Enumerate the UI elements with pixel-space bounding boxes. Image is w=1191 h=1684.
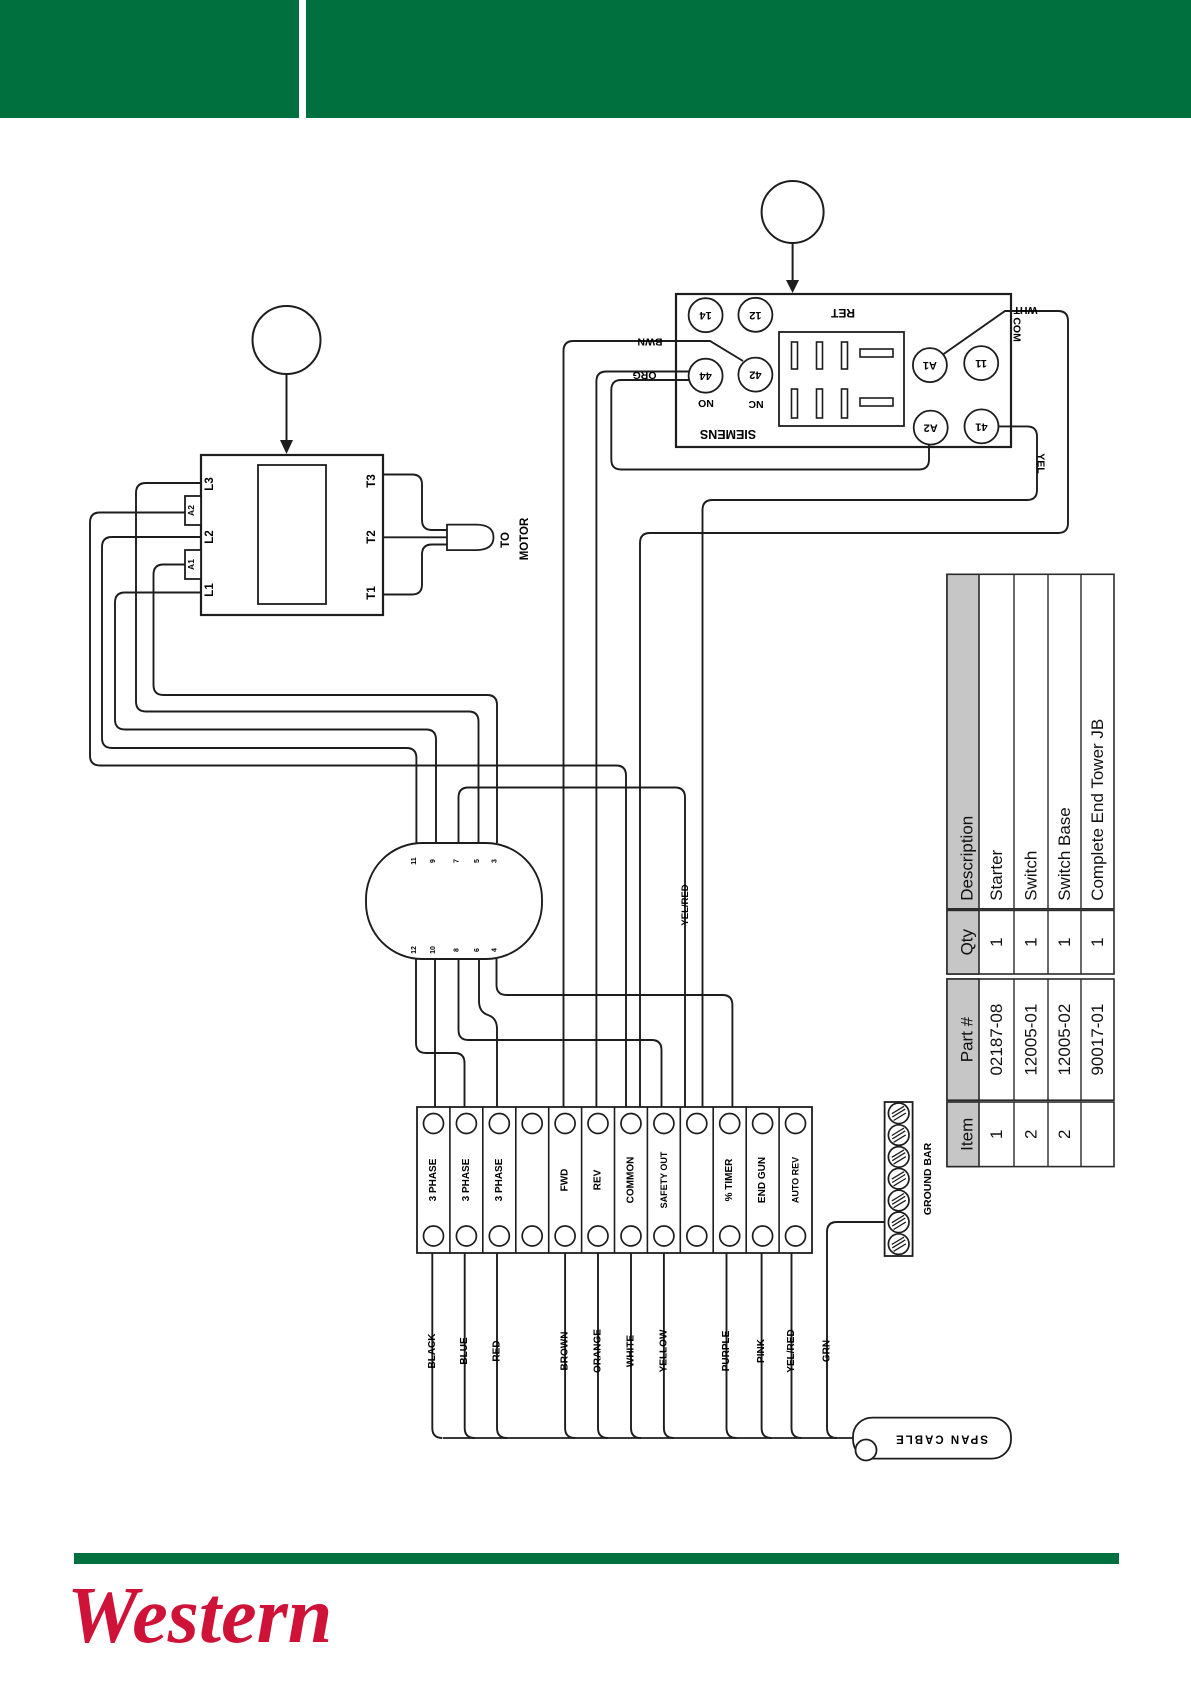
socket slot horizontal bbox=[860, 398, 893, 406]
ground bar screw bbox=[888, 1147, 909, 1168]
socket slot bbox=[792, 342, 798, 369]
svg-text:RET: RET bbox=[830, 306, 855, 320]
terminal 12 AUTO REV bbox=[786, 1114, 806, 1134]
wire BLACK to span cable bbox=[432, 1253, 442, 1438]
span cable bus wire bbox=[443, 1437, 856, 1439]
svg-text:5: 5 bbox=[474, 859, 481, 863]
wire GRN ground bar to span cable bbox=[827, 1222, 885, 1438]
ground bar screw bbox=[888, 1234, 909, 1255]
terminal 7 COMMON bbox=[621, 1114, 641, 1134]
svg-text:A2: A2 bbox=[186, 505, 196, 516]
svg-text:NC: NC bbox=[748, 398, 764, 410]
svg-text:A1: A1 bbox=[186, 559, 196, 570]
svg-text:11: 11 bbox=[975, 357, 987, 369]
starter aux contact A2 bbox=[185, 496, 201, 525]
wire T1 to motor lug bbox=[383, 545, 448, 595]
wire BLUE to span cable bbox=[465, 1253, 475, 1438]
svg-text:L2: L2 bbox=[204, 530, 216, 543]
ground bar screw bbox=[888, 1168, 909, 1189]
svg-text:12005-01: 12005-01 bbox=[1022, 1004, 1041, 1076]
svg-text:2: 2 bbox=[1055, 1130, 1074, 1139]
svg-text:L1: L1 bbox=[204, 583, 216, 597]
svg-text:A2: A2 bbox=[924, 422, 938, 434]
svg-text:1: 1 bbox=[1022, 937, 1041, 946]
relay pin 14 bbox=[689, 298, 723, 332]
svg-text:WHITE: WHITE bbox=[626, 1335, 637, 1368]
wire ORG relay 44 to REV terminal bbox=[596, 372, 689, 1109]
terminal 3 3 PHASE bbox=[489, 1114, 509, 1134]
svg-text:6: 6 bbox=[474, 948, 481, 952]
wire connector to 3 PHASE 3 bbox=[479, 959, 497, 1108]
terminal 1 3 PHASE bbox=[424, 1114, 444, 1134]
svg-text:1: 1 bbox=[987, 937, 1006, 946]
wire starter A1 to connector pin bbox=[154, 565, 498, 844]
table section Part # bbox=[947, 979, 1114, 1100]
svg-text:SIEMENS: SIEMENS bbox=[700, 427, 756, 441]
svg-text:END GUN: END GUN bbox=[757, 1157, 768, 1203]
footer rule bbox=[74, 1553, 1119, 1564]
table section Qty bbox=[947, 910, 1114, 974]
svg-text:WHT: WHT bbox=[1013, 304, 1037, 316]
svg-text:3 PHASE: 3 PHASE bbox=[428, 1158, 439, 1201]
svg-text:Item: Item bbox=[958, 1118, 977, 1151]
relay pin 41 bbox=[965, 409, 999, 443]
relay pin 11 bbox=[964, 346, 998, 380]
svg-text:4: 4 bbox=[492, 948, 499, 952]
wire BROWN to span cable bbox=[565, 1253, 575, 1438]
svg-text:11: 11 bbox=[411, 857, 418, 865]
callout balloon (starter) bbox=[253, 306, 321, 454]
svg-text:ORG: ORG bbox=[633, 369, 657, 381]
svg-text:42: 42 bbox=[749, 369, 761, 381]
terminal strip bbox=[417, 1107, 812, 1253]
svg-text:PURPLE: PURPLE bbox=[721, 1330, 732, 1371]
relay pin A1 bbox=[913, 348, 947, 382]
relay pin 42 bbox=[738, 358, 772, 392]
svg-text:44: 44 bbox=[699, 370, 712, 382]
wire L3 to connector pin bbox=[136, 483, 479, 843]
svg-text:MOTOR: MOTOR bbox=[519, 517, 531, 560]
svg-text:YELLOW: YELLOW bbox=[658, 1329, 669, 1372]
terminal 6 REV bbox=[588, 1114, 608, 1134]
relay pin 44 bbox=[689, 359, 723, 393]
svg-text:PINK: PINK bbox=[756, 1338, 767, 1363]
wire connector to %% TIMER bbox=[497, 959, 733, 1108]
svg-text:1: 1 bbox=[1088, 937, 1107, 946]
svg-text:12: 12 bbox=[411, 946, 418, 954]
table section Item bbox=[947, 1102, 1114, 1167]
svg-text:12: 12 bbox=[749, 309, 761, 321]
span cable symbol bbox=[853, 1418, 1011, 1461]
terminal 10 % TIMER bbox=[720, 1114, 740, 1134]
wire WHITE to span cable bbox=[631, 1253, 641, 1438]
wire L1 to connector pin bbox=[115, 593, 436, 844]
ground bar screw bbox=[888, 1212, 909, 1233]
svg-text:1: 1 bbox=[987, 1130, 1006, 1139]
svg-text:REV: REV bbox=[593, 1169, 604, 1190]
relay socket window bbox=[779, 332, 904, 426]
svg-text:8: 8 bbox=[454, 948, 461, 952]
terminal 5 FWD bbox=[555, 1114, 575, 1134]
svg-text:ORANGE: ORANGE bbox=[593, 1329, 604, 1373]
svg-text:14: 14 bbox=[699, 309, 712, 321]
svg-text:Qty: Qty bbox=[958, 928, 977, 955]
svg-text:3 PHASE: 3 PHASE bbox=[494, 1158, 505, 1201]
relay pin A2 bbox=[914, 411, 948, 445]
wire YEL/RED connector pin to spare terminal bbox=[459, 788, 686, 1109]
header bar right bbox=[306, 0, 1191, 118]
svg-text:YEL/RED: YEL/RED bbox=[680, 884, 691, 925]
wire connector to SAFETY OUT bbox=[459, 959, 662, 1108]
svg-text:T1: T1 bbox=[366, 586, 378, 600]
svg-text:7: 7 bbox=[454, 859, 461, 863]
table section Description bbox=[947, 574, 1114, 909]
svg-text:10: 10 bbox=[430, 946, 437, 954]
svg-text:02187-08: 02187-08 bbox=[987, 1004, 1006, 1076]
wire WHT relay A1 to COMMON terminal bbox=[640, 311, 1068, 1108]
svg-text:Complete End Tower JB: Complete End Tower JB bbox=[1088, 719, 1107, 901]
svg-text:3: 3 bbox=[492, 859, 499, 863]
svg-text:AUTO REV: AUTO REV bbox=[791, 1157, 801, 1203]
wire PINK to span cable bbox=[762, 1253, 772, 1438]
svg-text:41: 41 bbox=[975, 420, 987, 432]
starter aux contact A1 bbox=[185, 550, 201, 579]
relay pin 12 bbox=[738, 298, 772, 332]
svg-text:90017-01: 90017-01 bbox=[1088, 1004, 1107, 1076]
wire jumper relay 44 to coil A2 bbox=[611, 380, 929, 470]
wire YELLOW to span cable bbox=[664, 1253, 674, 1438]
svg-text:9: 9 bbox=[430, 859, 437, 863]
svg-text:T3: T3 bbox=[366, 474, 378, 487]
terminal 11 END GUN bbox=[753, 1114, 773, 1134]
wire ORANGE to span cable bbox=[598, 1253, 608, 1438]
ground bar screw bbox=[888, 1103, 909, 1124]
svg-text:BWN: BWN bbox=[637, 336, 662, 348]
svg-text:BROWN: BROWN bbox=[560, 1332, 571, 1371]
wire connector to 3 PHASE 2 bbox=[416, 959, 465, 1108]
socket slot bbox=[842, 342, 848, 369]
terminal 4 (spare) bbox=[522, 1114, 542, 1134]
wire RED to span cable bbox=[497, 1253, 507, 1438]
wire YEL relay 41 to spare terminal bbox=[703, 426, 1038, 1108]
wire YEL/RED to span cable bbox=[792, 1253, 802, 1438]
terminal 9 (spare) bbox=[687, 1114, 707, 1134]
svg-text:1: 1 bbox=[1055, 937, 1074, 946]
svg-text:NO: NO bbox=[698, 397, 714, 409]
svg-text:% TIMER: % TIMER bbox=[724, 1158, 735, 1202]
socket slot bbox=[817, 342, 823, 369]
svg-text:BLUE: BLUE bbox=[459, 1337, 470, 1365]
terminal 8 SAFETY OUT bbox=[654, 1114, 674, 1134]
svg-text:FWD: FWD bbox=[560, 1169, 571, 1192]
Western logo bbox=[67, 1571, 332, 1662]
svg-text:T2: T2 bbox=[366, 530, 378, 543]
svg-text:L3: L3 bbox=[204, 477, 216, 490]
wire BWN relay 42 to FWD terminal bbox=[564, 341, 744, 1108]
starter U1 (02187-08) bbox=[201, 455, 383, 615]
motor lug bbox=[447, 525, 494, 551]
wire PURPLE to span cable bbox=[727, 1253, 737, 1438]
svg-text:BLACK: BLACK bbox=[427, 1333, 438, 1369]
svg-text:Description: Description bbox=[958, 816, 977, 901]
svg-text:GROUND BAR: GROUND BAR bbox=[922, 1142, 934, 1215]
svg-text:Switch: Switch bbox=[1022, 851, 1041, 901]
svg-text:COM: COM bbox=[1011, 317, 1023, 342]
relay base (12005-02) bbox=[676, 294, 1011, 447]
svg-text:A1: A1 bbox=[923, 359, 937, 371]
ground bar bbox=[885, 1102, 913, 1256]
svg-text:Part #: Part # bbox=[958, 1016, 977, 1062]
ground bar screw bbox=[888, 1125, 909, 1146]
amphenol connector bbox=[366, 843, 542, 959]
svg-text:SAFETY OUT: SAFETY OUT bbox=[659, 1151, 669, 1208]
wire T2 to motor lug bbox=[383, 536, 448, 538]
wire connector to 3 PHASE 1 bbox=[434, 959, 436, 1108]
svg-text:COMMON: COMMON bbox=[626, 1157, 637, 1204]
svg-text:RED: RED bbox=[492, 1340, 503, 1361]
svg-text:SPAN CABLE: SPAN CABLE bbox=[894, 1433, 988, 1445]
svg-text:12005-02: 12005-02 bbox=[1055, 1004, 1074, 1076]
svg-text:3 PHASE: 3 PHASE bbox=[461, 1158, 472, 1201]
terminal 2 3 PHASE bbox=[456, 1114, 476, 1134]
wire L2 to connector pin bbox=[102, 537, 416, 843]
socket slot horizontal bbox=[860, 349, 893, 357]
wire starter A2 to COMMON terminal bbox=[90, 513, 626, 1109]
header bar left bbox=[0, 0, 299, 118]
svg-text:Starter: Starter bbox=[987, 849, 1006, 900]
svg-text:2: 2 bbox=[1022, 1130, 1041, 1139]
svg-text:TO: TO bbox=[500, 532, 512, 548]
svg-text:YEL: YEL bbox=[1035, 453, 1047, 474]
callout balloon (switch/relay) bbox=[762, 181, 824, 293]
ground bar screw bbox=[888, 1190, 909, 1211]
svg-text:YEL/RED: YEL/RED bbox=[786, 1329, 797, 1372]
svg-text:Switch Base: Switch Base bbox=[1055, 807, 1074, 901]
wire T3 to motor lug bbox=[383, 475, 448, 531]
svg-text:GRN: GRN bbox=[822, 1340, 833, 1362]
